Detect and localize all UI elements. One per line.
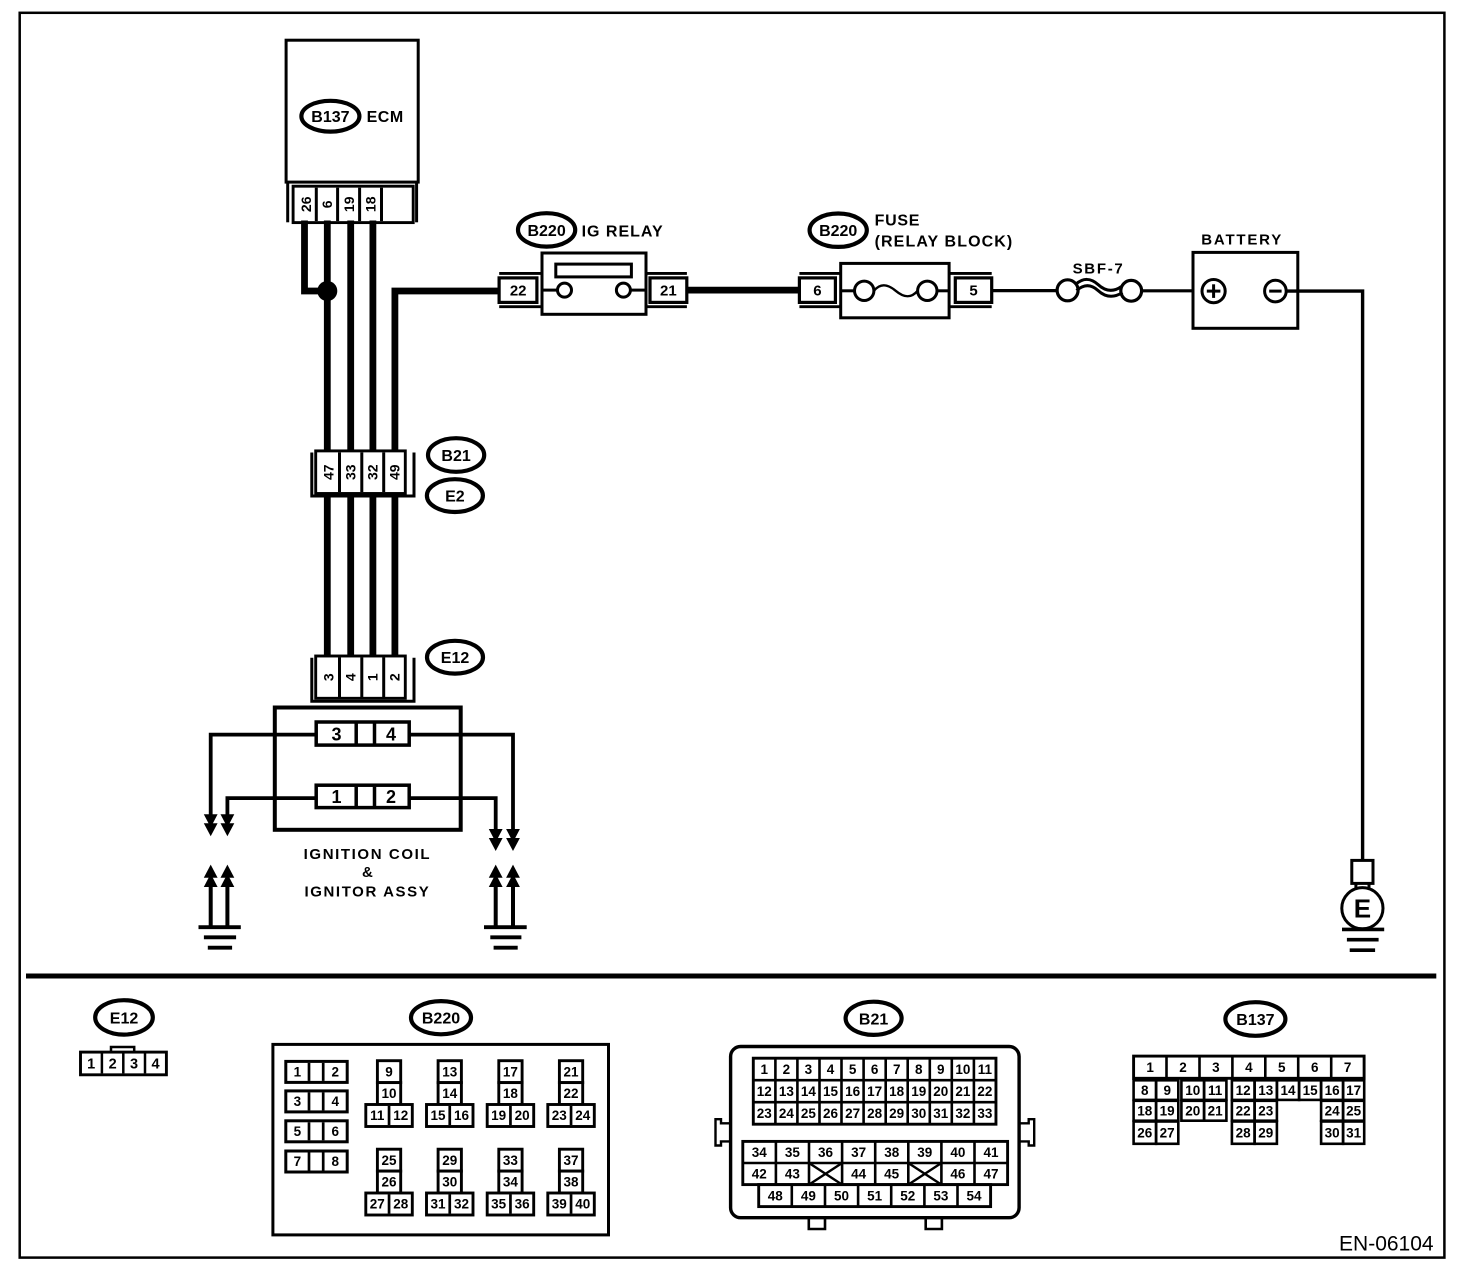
- fuse body: [841, 263, 949, 317]
- svg-text:22: 22: [977, 1084, 992, 1099]
- figure number EN-06104: [1339, 1232, 1434, 1255]
- svg-text:6: 6: [871, 1062, 879, 1077]
- svg-text:4: 4: [386, 725, 396, 745]
- svg-text:49: 49: [387, 464, 403, 480]
- label BATTERY: [1201, 231, 1283, 248]
- svg-text:24: 24: [575, 1108, 591, 1123]
- svg-text:6: 6: [319, 200, 335, 208]
- svg-text:9: 9: [1163, 1083, 1171, 1098]
- ECM B137 box: [286, 40, 418, 182]
- IG relay pin 22: [499, 273, 542, 306]
- label ECM: [367, 109, 404, 126]
- fuse pin 6: [799, 273, 840, 306]
- svg-text:22: 22: [510, 283, 527, 300]
- svg-text:B137: B137: [311, 109, 349, 126]
- svg-text:53: 53: [933, 1188, 949, 1203]
- svg-text:E: E: [1354, 894, 1371, 924]
- svg-text:30: 30: [911, 1106, 926, 1121]
- connector oval B137 (ECM): [301, 101, 359, 132]
- svg-text:&: &: [362, 864, 373, 881]
- svg-text:25: 25: [382, 1153, 398, 1168]
- B21 connector pinout: [716, 1047, 1035, 1230]
- svg-text:31: 31: [430, 1197, 446, 1212]
- wire coil pin 3 to ground: [204, 735, 316, 837]
- svg-text:2: 2: [331, 1065, 339, 1080]
- svg-text:3: 3: [331, 725, 341, 745]
- svg-text:32: 32: [955, 1106, 970, 1121]
- coil terminal box 3/4: [316, 722, 409, 745]
- svg-text:9: 9: [937, 1062, 945, 1077]
- svg-text:1: 1: [87, 1057, 95, 1073]
- svg-text:27: 27: [845, 1106, 860, 1121]
- wire ECM pin 19 to B21 pin 33: [347, 221, 354, 453]
- svg-text:2: 2: [387, 673, 403, 681]
- svg-text:12: 12: [757, 1084, 772, 1099]
- connector strip B21/E2 (pins 47,33,32,49): [312, 451, 414, 496]
- svg-text:13: 13: [1258, 1083, 1274, 1098]
- svg-text:6: 6: [1311, 1060, 1319, 1075]
- power wire B21 pin 49 to IG relay pin 22: [395, 291, 500, 452]
- svg-text:1: 1: [365, 673, 381, 681]
- svg-text:23: 23: [1258, 1104, 1274, 1119]
- svg-text:21: 21: [660, 283, 677, 300]
- svg-text:40: 40: [950, 1145, 965, 1160]
- fusible link SBF-7: [1057, 261, 1142, 302]
- svg-text:3: 3: [320, 673, 336, 681]
- wire ECM pin 18 to B21 pin 32: [369, 221, 376, 453]
- svg-text:7: 7: [1344, 1060, 1352, 1075]
- svg-text:28: 28: [393, 1197, 409, 1212]
- svg-text:3: 3: [294, 1094, 302, 1109]
- svg-text:54: 54: [966, 1188, 982, 1203]
- svg-text:15: 15: [1303, 1083, 1319, 1098]
- wire battery minus to ground E: [1286, 291, 1362, 860]
- svg-text:18: 18: [1137, 1104, 1153, 1119]
- svg-text:10: 10: [1185, 1083, 1200, 1098]
- svg-text:3: 3: [1212, 1060, 1220, 1075]
- svg-text:11: 11: [978, 1062, 993, 1077]
- IG relay pin 21: [646, 273, 687, 306]
- ground E symbol: [1342, 860, 1384, 950]
- svg-text:19: 19: [341, 196, 357, 212]
- svg-text:27: 27: [370, 1197, 385, 1212]
- svg-text:30: 30: [1325, 1125, 1340, 1140]
- svg-text:43: 43: [785, 1167, 801, 1182]
- svg-text:24: 24: [1325, 1104, 1341, 1119]
- svg-text:8: 8: [331, 1154, 339, 1169]
- svg-text:14: 14: [1280, 1083, 1296, 1098]
- svg-text:18: 18: [503, 1086, 519, 1101]
- svg-text:E12: E12: [441, 650, 470, 667]
- svg-text:36: 36: [515, 1197, 531, 1212]
- svg-text:B21: B21: [441, 448, 470, 465]
- svg-text:14: 14: [801, 1084, 817, 1099]
- svg-text:6: 6: [331, 1124, 339, 1139]
- svg-text:B220: B220: [819, 223, 857, 240]
- svg-text:26: 26: [1137, 1125, 1153, 1140]
- svg-text:50: 50: [834, 1188, 849, 1203]
- svg-text:39: 39: [917, 1145, 932, 1160]
- svg-text:52: 52: [900, 1188, 915, 1203]
- svg-text:15: 15: [430, 1108, 446, 1123]
- connector oval E12 (pinout): [95, 1000, 153, 1034]
- svg-text:2: 2: [109, 1057, 117, 1073]
- svg-text:24: 24: [779, 1106, 795, 1121]
- svg-text:4: 4: [1245, 1060, 1253, 1075]
- svg-text:18: 18: [362, 196, 378, 212]
- svg-text:38: 38: [564, 1175, 580, 1190]
- svg-text:29: 29: [1258, 1125, 1273, 1140]
- svg-text:13: 13: [779, 1084, 795, 1099]
- svg-text:5: 5: [294, 1124, 302, 1139]
- svg-text:E2: E2: [445, 489, 465, 506]
- svg-text:4: 4: [152, 1057, 160, 1073]
- wire ECM pin 6 to B21 pin 47: [324, 221, 331, 453]
- svg-text:3: 3: [805, 1062, 813, 1077]
- svg-text:23: 23: [757, 1106, 773, 1121]
- svg-text:33: 33: [977, 1106, 993, 1121]
- wire B21/E2 pin 32 to E12 pin 1: [369, 493, 376, 658]
- svg-text:42: 42: [752, 1167, 767, 1182]
- svg-text:IG RELAY: IG RELAY: [582, 224, 664, 241]
- label IG RELAY: [582, 224, 664, 241]
- svg-text:5: 5: [849, 1062, 857, 1077]
- svg-text:7: 7: [294, 1154, 302, 1169]
- svg-text:31: 31: [1346, 1125, 1362, 1140]
- svg-text:17: 17: [503, 1064, 518, 1079]
- svg-text:4: 4: [331, 1094, 339, 1109]
- connector oval B137 (pinout): [1225, 1002, 1285, 1036]
- svg-text:46: 46: [950, 1167, 966, 1182]
- svg-text:51: 51: [867, 1188, 883, 1203]
- svg-text:39: 39: [552, 1197, 567, 1212]
- wire coil pin 2 to ground: [409, 798, 502, 851]
- svg-text:12: 12: [393, 1108, 408, 1123]
- svg-text:14: 14: [442, 1086, 458, 1101]
- svg-text:8: 8: [915, 1062, 923, 1077]
- wire SBF-7 to battery: [1142, 289, 1203, 292]
- svg-text:IGNITOR ASSY: IGNITOR ASSY: [304, 884, 430, 901]
- IG relay body: [542, 253, 646, 314]
- svg-text:1: 1: [294, 1065, 302, 1080]
- svg-text:BATTERY: BATTERY: [1201, 231, 1283, 248]
- junction node: [317, 281, 337, 301]
- svg-text:37: 37: [851, 1145, 866, 1160]
- svg-text:12: 12: [1236, 1083, 1251, 1098]
- svg-text:25: 25: [1346, 1104, 1362, 1119]
- svg-text:27: 27: [1160, 1125, 1175, 1140]
- svg-text:16: 16: [454, 1108, 470, 1123]
- svg-text:21: 21: [564, 1064, 580, 1079]
- svg-text:10: 10: [382, 1086, 397, 1101]
- svg-text:34: 34: [752, 1145, 768, 1160]
- svg-text:1: 1: [761, 1062, 769, 1077]
- svg-text:17: 17: [867, 1084, 882, 1099]
- svg-text:16: 16: [1325, 1083, 1341, 1098]
- wire B21/E2 pin 49 to E12 pin 2: [391, 493, 398, 658]
- svg-text:32: 32: [454, 1197, 469, 1212]
- svg-text:32: 32: [365, 464, 381, 480]
- svg-text:16: 16: [845, 1084, 861, 1099]
- battery: [1193, 252, 1298, 328]
- svg-text:(RELAY BLOCK): (RELAY BLOCK): [875, 233, 1014, 250]
- svg-text:28: 28: [1236, 1125, 1252, 1140]
- svg-text:29: 29: [889, 1106, 904, 1121]
- svg-text:B220: B220: [422, 1011, 460, 1028]
- svg-text:29: 29: [442, 1153, 457, 1168]
- section divider line: [26, 974, 1436, 979]
- svg-text:36: 36: [818, 1145, 834, 1160]
- svg-text:19: 19: [1160, 1104, 1175, 1119]
- svg-text:18: 18: [889, 1084, 905, 1099]
- svg-text:45: 45: [884, 1167, 900, 1182]
- svg-text:6: 6: [813, 283, 821, 300]
- svg-text:30: 30: [442, 1175, 457, 1190]
- svg-text:17: 17: [1346, 1083, 1361, 1098]
- svg-text:37: 37: [564, 1153, 579, 1168]
- svg-text:40: 40: [575, 1197, 590, 1212]
- svg-text:3: 3: [130, 1057, 138, 1073]
- svg-text:35: 35: [491, 1197, 507, 1212]
- svg-text:20: 20: [1185, 1104, 1200, 1119]
- E12 connector pinout: [81, 1047, 167, 1075]
- svg-text:IGNITION COIL: IGNITION COIL: [304, 846, 431, 863]
- svg-text:2: 2: [783, 1062, 791, 1077]
- svg-text:21: 21: [955, 1084, 971, 1099]
- svg-text:20: 20: [515, 1108, 530, 1123]
- svg-text:35: 35: [785, 1145, 801, 1160]
- svg-text:ECM: ECM: [367, 109, 404, 126]
- coil terminal box 1/2: [316, 785, 409, 807]
- wire coil pin 4 to ground: [409, 735, 520, 851]
- svg-text:11: 11: [1208, 1083, 1223, 1098]
- svg-text:5: 5: [1278, 1060, 1286, 1075]
- ignition coil & ignitor assy box: [275, 708, 461, 830]
- connector oval B21: [428, 438, 484, 472]
- svg-text:5: 5: [969, 283, 977, 300]
- svg-text:4: 4: [343, 673, 359, 681]
- svg-text:23: 23: [552, 1108, 568, 1123]
- svg-text:25: 25: [801, 1106, 817, 1121]
- wire B21/E2 pin 33 to E12 pin 4: [347, 493, 354, 658]
- svg-text:E12: E12: [110, 1010, 139, 1027]
- connector oval E12: [427, 641, 483, 674]
- svg-text:26: 26: [298, 196, 314, 212]
- wire fuse 5 to SBF-7: [992, 289, 1057, 292]
- B137 connector pinout: [1134, 1056, 1365, 1144]
- svg-text:10: 10: [955, 1062, 970, 1077]
- svg-text:19: 19: [911, 1084, 926, 1099]
- ECM connector strip (pins 26,6,19,18): [288, 182, 417, 223]
- svg-text:SBF-7: SBF-7: [1073, 261, 1125, 278]
- svg-text:9: 9: [385, 1064, 393, 1079]
- svg-text:1: 1: [1146, 1060, 1154, 1075]
- svg-text:33: 33: [503, 1153, 519, 1168]
- svg-text:FUSE: FUSE: [875, 212, 920, 229]
- connector strip E12 (pins 3,4,1,2): [312, 656, 414, 701]
- svg-text:4: 4: [827, 1062, 835, 1077]
- svg-text:44: 44: [851, 1167, 867, 1182]
- svg-text:8: 8: [1141, 1083, 1149, 1098]
- connector oval B220 (IG relay): [518, 213, 575, 246]
- power wire relay 21 to fuse 6: [687, 287, 799, 294]
- connector oval B220 (pinout): [411, 1001, 471, 1034]
- svg-text:13: 13: [442, 1064, 458, 1079]
- svg-text:B220: B220: [527, 223, 565, 240]
- svg-text:31: 31: [933, 1106, 949, 1121]
- wire coil pin 1 to ground: [221, 798, 317, 836]
- svg-text:B137: B137: [1236, 1012, 1274, 1029]
- label FUSE (RELAY BLOCK): [875, 212, 1014, 250]
- svg-text:EN-06104: EN-06104: [1339, 1232, 1434, 1255]
- connector oval E2: [427, 479, 483, 512]
- B220 connector pinout: [273, 1044, 609, 1235]
- connector oval B220 (fuse): [810, 214, 867, 247]
- svg-text:47: 47: [983, 1167, 998, 1182]
- svg-text:49: 49: [801, 1188, 816, 1203]
- svg-text:34: 34: [503, 1175, 519, 1190]
- svg-text:7: 7: [893, 1062, 901, 1077]
- svg-text:2: 2: [1179, 1060, 1187, 1075]
- svg-text:48: 48: [768, 1188, 784, 1203]
- svg-text:20: 20: [933, 1084, 948, 1099]
- svg-text:33: 33: [343, 464, 359, 480]
- svg-text:21: 21: [1208, 1104, 1224, 1119]
- svg-text:15: 15: [823, 1084, 839, 1099]
- connector oval B21 (pinout): [846, 1002, 902, 1035]
- label ignition coil: [304, 846, 431, 901]
- svg-text:22: 22: [564, 1086, 579, 1101]
- svg-text:22: 22: [1236, 1104, 1251, 1119]
- svg-text:B21: B21: [859, 1011, 888, 1028]
- wire ECM pin 26 to junction: [305, 221, 328, 292]
- svg-text:2: 2: [386, 787, 396, 807]
- svg-text:47: 47: [320, 464, 336, 480]
- svg-text:19: 19: [491, 1108, 506, 1123]
- ground symbol right: [484, 865, 527, 948]
- svg-text:1: 1: [331, 787, 341, 807]
- svg-text:26: 26: [382, 1175, 398, 1190]
- svg-text:11: 11: [370, 1108, 385, 1123]
- svg-text:28: 28: [867, 1106, 883, 1121]
- wire B21/E2 pin 47 to E12 pin 3: [324, 493, 331, 658]
- svg-text:38: 38: [884, 1145, 900, 1160]
- svg-text:26: 26: [823, 1106, 839, 1121]
- svg-text:41: 41: [983, 1145, 999, 1160]
- ground symbol left: [199, 865, 241, 948]
- fuse pin 5: [949, 273, 992, 306]
